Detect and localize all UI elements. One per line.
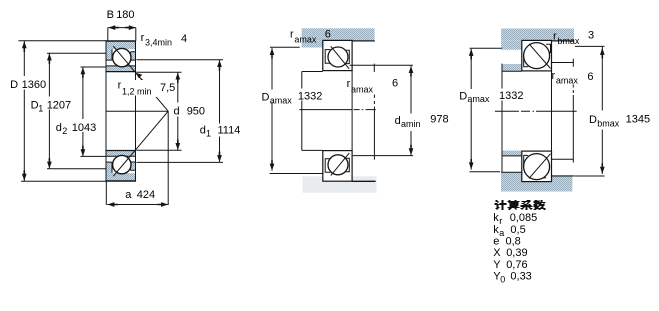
upper ball (113, 48, 131, 66)
lower bearing box (522, 151, 552, 182)
housing shoulder step lower (501, 172, 522, 191)
lower ball (328, 155, 348, 175)
svg-text:6: 6 (392, 78, 398, 90)
D dimension line (23, 41, 25, 181)
d1 extension lines (137, 60, 224, 163)
bearing left face (105, 41, 107, 181)
title 计算系数 (drawn as pixel runs) (495, 200, 546, 210)
svg-text:1332: 1332 (499, 90, 523, 102)
svg-text:0: 0 (500, 275, 505, 285)
svg-text:1345: 1345 (626, 114, 650, 126)
svg-text:0,76: 0,76 (506, 259, 527, 271)
svg-text:978: 978 (430, 113, 448, 125)
housing block lower (501, 176, 572, 192)
upper section inner edges (106, 49, 136, 66)
svg-text:Y: Y (493, 259, 501, 271)
svg-text:r: r (553, 31, 557, 43)
d extension lines (137, 72, 182, 150)
lower ball (113, 155, 131, 173)
svg-text:amax: amax (467, 94, 490, 104)
Damax extension lines (right) (470, 48, 502, 171)
sleeve bottom edges (502, 71, 522, 156)
d2 extension lines (81, 67, 107, 156)
svg-text:180: 180 (116, 9, 134, 21)
svg-text:2: 2 (62, 126, 67, 136)
shaft surface edge line (352, 180, 376, 182)
right labels (459, 30, 650, 129)
upper bearing box (522, 40, 552, 71)
housing bore edge line (right fig) (552, 40, 575, 42)
lower housing top edge (right fig) (552, 175, 575, 177)
svg-text:4: 4 (181, 33, 187, 45)
svg-text:bmax: bmax (557, 36, 580, 46)
svg-text:amax: amax (270, 96, 293, 106)
ra measuring line (lower) (551, 158, 573, 160)
lower raceway brackets (524, 155, 547, 178)
svg-text:0,8: 0,8 (506, 236, 521, 248)
svg-text:r: r (290, 29, 294, 41)
svg-text:d: d (395, 115, 401, 127)
lower ball (524, 154, 550, 180)
shaft shoulder top edges (302, 72, 323, 151)
upper bearing box (323, 40, 352, 70)
svg-text:bmax: bmax (597, 119, 620, 129)
upper contact angle line (113, 46, 168, 111)
shaft pale block (302, 176, 376, 193)
centerline axis (106, 110, 169, 112)
svg-text:950: 950 (187, 106, 205, 118)
d2 dimension line (82, 67, 84, 156)
bearing right face (135, 41, 137, 181)
svg-text:1: 1 (38, 104, 43, 114)
outer ring lower stipple (106, 173, 136, 181)
svg-text:a: a (125, 189, 132, 201)
lower contact diagonal (331, 153, 349, 176)
r12 leader arrow (138, 76, 146, 83)
D1 dimension line (48, 53, 50, 169)
middle labels (262, 29, 449, 130)
Damax extension lines (270, 47, 324, 173)
svg-text:D: D (459, 91, 467, 103)
svg-text:e: e (493, 236, 499, 248)
ra leader dashes (373, 95, 375, 160)
label background boxes (116, 80, 155, 96)
svg-text:amax: amax (556, 76, 579, 86)
svg-text:d: d (174, 106, 180, 118)
lower contact angle line (113, 111, 168, 176)
svg-text:r: r (141, 32, 145, 44)
lower step top edge (501, 171, 522, 173)
svg-text:1,2 min: 1,2 min (122, 87, 152, 97)
inner ring lower stipple (106, 151, 136, 157)
svg-text:0,33: 0,33 (510, 271, 531, 283)
svg-text:1114: 1114 (218, 125, 241, 137)
svg-text:1043: 1043 (72, 122, 96, 134)
svg-text:r: r (347, 78, 351, 90)
upper ball (328, 47, 348, 67)
abutment sleeve upper (502, 64, 522, 71)
Dbmax extension lines (575, 46, 605, 176)
lower raceway brackets (325, 158, 349, 172)
bearing top face (105, 40, 136, 42)
svg-text:B: B (107, 9, 114, 21)
svg-text:3: 3 (588, 30, 594, 42)
d dimension line (177, 72, 179, 150)
bearing right face continuation (551, 71, 553, 151)
Damax dimension line (right) (470, 49, 472, 170)
D extension lines (19, 41, 107, 182)
svg-text:amin: amin (401, 119, 421, 129)
svg-text:D: D (262, 92, 270, 104)
outer ring upper stipple (106, 41, 136, 181)
centerline (299, 109, 375, 111)
upper ball (524, 43, 550, 69)
svg-text:d: d (56, 122, 62, 134)
housing block stipple (302, 28, 375, 40)
svg-text:X: X (493, 247, 501, 259)
upper raceway brackets (325, 50, 349, 64)
upper contact diagonal (529, 44, 551, 69)
shaft end face line (301, 72, 303, 151)
lower section inner edges (106, 156, 136, 173)
ra measuring line with tick (upper) (552, 59, 573, 67)
damin bottom extension (353, 155, 413, 157)
svg-text:1207: 1207 (47, 100, 71, 112)
svg-text:amax: amax (294, 35, 317, 45)
apex extension line (167, 111, 169, 205)
lower bore line (105, 150, 136, 152)
sleeve face line (501, 64, 503, 173)
svg-text:D: D (589, 114, 597, 126)
ra leader dashes (572, 85, 574, 163)
B dimension (108, 28, 136, 41)
abutment sleeve lower (502, 151, 522, 156)
svg-text:1360: 1360 (22, 79, 46, 91)
a dimension line (106, 181, 168, 205)
svg-text:r: r (118, 80, 122, 92)
lower bearing box (323, 151, 352, 182)
svg-text:3,4min: 3,4min (145, 38, 172, 48)
Damax dimension line (271, 48, 273, 171)
svg-text:1: 1 (206, 129, 211, 139)
upper bore line (105, 71, 136, 73)
svg-text:6: 6 (325, 29, 331, 41)
d1 dimension line (219, 60, 221, 163)
housing shoulder step (302, 40, 323, 47)
svg-text:424: 424 (137, 189, 155, 201)
Dbmax dimension line (601, 46, 603, 173)
housing block stipple (501, 29, 574, 41)
svg-text:0,39: 0,39 (506, 247, 527, 259)
svg-text:0,085: 0,085 (510, 212, 538, 224)
damin dimension line (410, 66, 412, 155)
centerline (495, 110, 577, 112)
lower contact diagonal (529, 154, 551, 179)
bearing right face continuation (351, 71, 353, 151)
upper contact diagonal (331, 46, 349, 69)
svg-text:d: d (200, 125, 206, 137)
housing shoulder step upper (501, 40, 522, 49)
svg-text:1332: 1332 (298, 91, 322, 103)
svg-text:0,5: 0,5 (510, 224, 525, 236)
bearing bottom face (105, 180, 136, 182)
inner ring upper stipple (106, 66, 136, 72)
label B 180 (10, 9, 240, 201)
housing bore edge line (352, 40, 375, 42)
D1 extension lines (47, 53, 106, 169)
svg-text:r: r (552, 70, 556, 82)
svg-text:7,5: 7,5 (160, 82, 175, 94)
svg-text:r: r (499, 216, 502, 226)
svg-text:a: a (499, 228, 504, 238)
upper raceway brackets (524, 44, 551, 67)
svg-text:6: 6 (587, 71, 593, 83)
ra measuring line with tick (350, 64, 413, 72)
svg-text:D: D (10, 79, 18, 91)
svg-text:amax: amax (351, 85, 374, 95)
